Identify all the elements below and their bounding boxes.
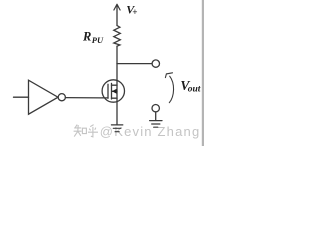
inverter U1 triangle <box>29 80 59 114</box>
wire: bottom terminal to ground <box>155 112 157 121</box>
frame border right <box>202 0 204 146</box>
glyph 乎 <box>88 125 98 137</box>
drain stub <box>112 84 118 86</box>
svg-text:+: + <box>132 7 137 17</box>
label V+ <box>126 2 137 16</box>
wire: node to output terminal <box>117 63 152 65</box>
svg-text:out: out <box>188 84 201 94</box>
output terminal circle (top) <box>152 60 159 67</box>
label RPU <box>82 30 104 46</box>
resistor RPU zigzag <box>114 26 121 47</box>
inverter bubble <box>58 94 65 101</box>
Vout curved arrow <box>165 73 173 103</box>
label Vout <box>180 78 200 94</box>
gate lead <box>102 97 108 99</box>
V+ supply arrow <box>114 4 120 25</box>
wire: resistor to MOSFET drain / through to ground <box>116 46 118 124</box>
ground under MOSFET <box>111 125 122 132</box>
source stub <box>112 97 118 99</box>
watermark 知乎 @Kevin Zhang <box>74 125 98 137</box>
NMOS body arrow (points left) <box>112 89 117 94</box>
body line <box>112 90 117 92</box>
gate bar <box>107 84 109 98</box>
output terminal circle (bottom) <box>152 105 159 112</box>
MOSFET Q1 body circle <box>102 80 124 102</box>
ground under bottom terminal <box>150 121 162 128</box>
inverter input wire <box>14 96 29 98</box>
channel bar <box>111 83 113 99</box>
svg-text:PU: PU <box>92 35 104 45</box>
wire: inverter output to gate <box>65 97 102 99</box>
glyph 知 <box>74 125 87 137</box>
svg-text:R: R <box>82 30 91 44</box>
